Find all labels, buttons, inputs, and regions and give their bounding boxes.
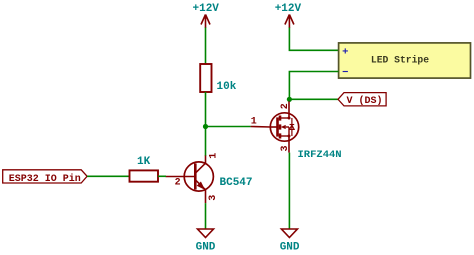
wire ESP32 label to resistor 1K <box>87 175 129 177</box>
svg-text:2: 2 <box>175 178 181 189</box>
resistor R 1K <box>130 170 159 181</box>
svg-text:1: 1 <box>251 116 257 127</box>
svg-text:−: − <box>342 67 348 79</box>
global label V (DS) <box>338 93 386 106</box>
svg-text:IRFZ44N: IRFZ44N <box>298 149 342 161</box>
svg-text:GND: GND <box>196 242 216 254</box>
wire LED stripe minus to drain node <box>289 72 338 100</box>
ground GND (right) wire <box>288 153 290 229</box>
svg-text:3: 3 <box>280 145 291 151</box>
wire from +12V to resistor 10k <box>205 28 207 65</box>
resistor R 10k <box>200 64 211 92</box>
svg-text:LED Stripe: LED Stripe <box>371 54 429 65</box>
wire +12V to LED stripe plus <box>289 28 338 51</box>
svg-text:GND: GND <box>280 242 300 254</box>
transistor Q BC547 <box>166 156 214 204</box>
node junction (collector/gate) <box>203 124 208 129</box>
svg-text:3: 3 <box>208 195 219 201</box>
ground GND (right) <box>281 229 297 238</box>
node junction (drain) <box>287 97 292 102</box>
wire resistor 1K to base pin <box>158 175 166 177</box>
LED Stripe block <box>339 43 471 78</box>
svg-text:10k: 10k <box>217 81 237 93</box>
wire drain node to V (DS) label <box>289 98 338 100</box>
wire from junction to MOSFET gate <box>206 126 251 128</box>
svg-text:+12V: +12V <box>275 3 302 15</box>
global label ESP32 IO Pin <box>3 170 87 183</box>
ground GND (left) wire <box>205 203 207 229</box>
power +12V (left) <box>201 15 210 29</box>
ground GND (left) <box>198 229 214 238</box>
wire drain node to MOSFET drain <box>288 99 290 102</box>
svg-text:+12V: +12V <box>193 3 220 15</box>
svg-text:ESP32 IO Pin: ESP32 IO Pin <box>9 173 81 185</box>
svg-text:+: + <box>342 46 348 58</box>
transistor Q IRFZ44N <box>251 101 299 152</box>
svg-text:BC547: BC547 <box>220 177 253 189</box>
svg-text:1: 1 <box>208 153 219 159</box>
svg-text:V (DS): V (DS) <box>347 95 383 107</box>
svg-text:1K: 1K <box>137 156 151 168</box>
svg-text:2: 2 <box>280 103 291 109</box>
wire from resistor 10k to collector node <box>205 92 207 156</box>
power +12V (right) <box>285 15 294 29</box>
